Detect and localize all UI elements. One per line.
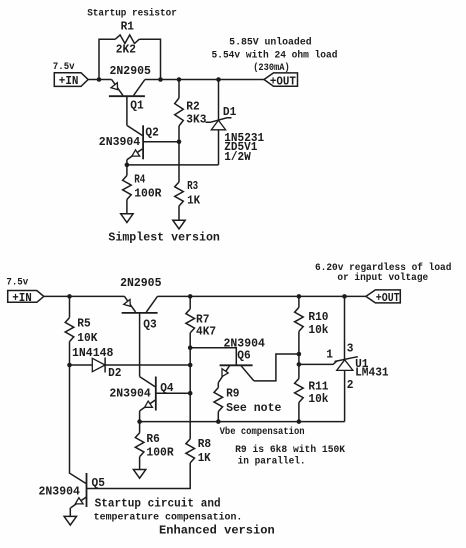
svg-text:2: 2 <box>347 378 354 392</box>
wire: R8 bottom to Q5 base <box>87 463 191 489</box>
diode D2 cathode bar <box>104 358 106 373</box>
wire: bottom compensation rail <box>140 421 345 423</box>
label Q5 <box>92 476 105 490</box>
svg-text:R9: R9 <box>226 387 239 401</box>
svg-text:R9 is 6k8 with 150K: R9 is 6k8 with 150K <box>235 444 345 455</box>
transistor Q6 (2N3904 NPN, rotated) <box>218 365 254 382</box>
label 1N4148 <box>72 346 113 360</box>
label 3K3 <box>186 113 206 127</box>
resistor R1 value 2K2 <box>116 43 136 57</box>
node: R11 bottom junction <box>297 419 302 424</box>
pin number 3 <box>347 342 354 356</box>
wire: R10 bottom / R11 top rail <box>298 331 300 378</box>
svg-text:D1: D1 <box>223 105 236 119</box>
label R3 <box>187 179 198 193</box>
svg-text:3: 3 <box>347 342 354 356</box>
svg-text:R6: R6 <box>146 432 159 446</box>
svg-text:See note: See note <box>226 401 281 415</box>
resistor R6 (100R) <box>135 433 144 457</box>
transistor Q1 (2N2905 PNP) <box>109 80 145 97</box>
label 2N3904 (Q2) <box>99 135 140 149</box>
wire: R3 bottom lead <box>178 206 180 220</box>
resistor R10 (10k) <box>295 307 304 331</box>
svg-text:10K: 10K <box>77 331 98 345</box>
wire: R4 bottom lead <box>126 200 128 214</box>
shunt regulator U1 (LM431) zener bar <box>335 357 358 362</box>
svg-text:Q3: Q3 <box>143 318 156 332</box>
annotation: R9 is 6k8 with 150K <box>235 444 345 455</box>
svg-text:Q1: Q1 <box>130 98 143 112</box>
label 10K <box>77 331 98 345</box>
svg-text:+OUT: +OUT <box>376 291 400 305</box>
wire: R2 bottom lead <box>178 126 180 142</box>
label R2 <box>186 100 199 114</box>
wire: U1 pin 1 reference lead <box>299 361 337 365</box>
wire: R5 bottom lead <box>69 342 71 365</box>
resistor R1 label <box>121 20 134 34</box>
label R8 <box>198 437 211 451</box>
label 10k (R11) <box>308 392 328 406</box>
transistor Q2 (2N3904 NPN) <box>127 125 143 159</box>
node: R5 / D2 / Q5 collector junction <box>67 363 72 368</box>
wire: Q3 base / Q4 collector vertical <box>139 313 141 377</box>
pin number 1 <box>326 348 333 362</box>
label ZD5V1 <box>224 140 257 154</box>
label LM431 <box>355 366 389 380</box>
wire: R7 bottom to R8 top rail <box>189 333 191 439</box>
label Q4 <box>160 381 173 395</box>
wire: Q2 base to R2/R3 node <box>143 141 179 143</box>
zener diode D1 (1N5231) triangle <box>211 120 225 130</box>
port +IN (top) <box>54 73 88 88</box>
wire: +IN to Q1 emitter <box>88 79 112 81</box>
resistor R7 (4K7) <box>186 309 195 333</box>
svg-text:Vbe compensation: Vbe compensation <box>220 426 305 437</box>
node: R10 top junction <box>297 294 302 299</box>
svg-text:2N2905: 2N2905 <box>110 64 151 78</box>
label 1K (R8) <box>198 451 212 465</box>
svg-text:5.85V unloaded: 5.85V unloaded <box>229 37 312 48</box>
svg-text:1/2W: 1/2W <box>224 150 251 164</box>
port +OUT (top) <box>264 73 298 89</box>
caption: Simplest version <box>108 230 219 244</box>
svg-text:2N3904: 2N3904 <box>99 135 140 149</box>
wire: Q5 emitter stub to ground <box>69 508 71 517</box>
shunt regulator U1 triangle <box>337 360 353 371</box>
wire: junction to D2 anode <box>70 364 93 366</box>
wire: R4 top lead <box>126 165 128 176</box>
resistor R8 (1K) <box>186 439 195 463</box>
svg-text:2N3904: 2N3904 <box>39 485 80 499</box>
label 100R (R6) <box>146 445 173 459</box>
annotation: temperature compensation. <box>94 512 243 523</box>
annotation: 7.5v input voltage (bottom) <box>6 276 28 287</box>
svg-text:in parallel.: in parallel. <box>238 456 306 467</box>
wire: R1 loop left leg <box>99 39 115 79</box>
svg-text:3K3: 3K3 <box>186 113 206 127</box>
transistor Q5 (2N3904 NPN) <box>71 473 87 508</box>
node: Q4 emitter / R6 junction <box>137 419 142 424</box>
wire: R5 top lead <box>69 296 71 317</box>
wire: R9 bottom lead <box>217 412 219 422</box>
port +OUT (bottom) <box>366 290 400 305</box>
label Q3 <box>143 318 156 332</box>
wire: Q6 base lead <box>190 348 236 365</box>
resistor R5 (10K) <box>65 318 74 342</box>
port +IN (bottom) <box>8 291 44 305</box>
wire: D2 cathode to divider node <box>105 364 190 366</box>
annotation: 6.20v regardless of load <box>315 262 452 273</box>
svg-text:R5: R5 <box>77 317 90 331</box>
annotation: in parallel. <box>238 456 306 467</box>
label 4K7 <box>196 325 216 339</box>
annotation: Startup resistor <box>87 8 177 19</box>
transistor Q3 (2N2905 PNP) <box>122 296 158 313</box>
wire: R2 top lead <box>178 80 180 99</box>
node: R9 bottom junction <box>216 419 221 424</box>
label 10k (R10) <box>308 323 328 337</box>
svg-text:7.5v: 7.5v <box>53 61 75 72</box>
wire: R3 top lead <box>178 142 180 182</box>
node: junction +IN / R1 / Q1 emitter <box>97 77 102 82</box>
svg-text:R3: R3 <box>187 179 198 193</box>
wire: U1 pin 2 anode lead <box>344 370 346 421</box>
svg-text:Q6: Q6 <box>237 349 250 363</box>
wire: Q1 base to Q2 collector <box>126 96 128 125</box>
svg-text:100R: 100R <box>134 187 161 201</box>
node: +IN / R5 / Q3 emitter junction <box>67 294 72 299</box>
svg-text:2N2905: 2N2905 <box>120 276 161 290</box>
ground (below R4) <box>121 214 133 223</box>
resistor R2 (3K3) <box>175 98 184 126</box>
svg-text:LM431: LM431 <box>355 366 389 380</box>
node: Q2 emitter / R4 / D1 anode junction <box>125 163 130 168</box>
node: R7 top junction <box>188 294 193 299</box>
resistor R11 (10k) <box>295 379 304 403</box>
label 2N2905 (Q1) <box>110 64 151 78</box>
svg-text:D2: D2 <box>108 366 121 380</box>
ground (below R6) <box>133 470 145 479</box>
ground (below R3) <box>173 220 185 229</box>
wire: Q1 collector rail to +OUT <box>145 79 264 81</box>
resistor R4 (100R) <box>123 176 132 200</box>
svg-text:R2: R2 <box>186 100 199 114</box>
node: Q4 base junction <box>188 391 193 396</box>
svg-text:2K2: 2K2 <box>116 43 136 57</box>
svg-text:2N3904: 2N3904 <box>109 387 150 401</box>
wire: R9 top lead <box>217 383 219 388</box>
label D2 <box>108 366 121 380</box>
wire: emitter node to D1 anode <box>127 164 219 166</box>
ground (below Q5) <box>64 516 76 525</box>
wire: Q4 emitter stub <box>139 411 141 422</box>
label R6 <box>146 432 159 446</box>
wire: Q2 emitter stub <box>126 160 128 165</box>
svg-text:(230mA): (230mA) <box>253 62 290 73</box>
label R9 <box>226 387 239 401</box>
node: D1 top junction <box>216 77 221 82</box>
svg-text:temperature compensation.: temperature compensation. <box>94 512 243 523</box>
svg-text:1K: 1K <box>198 451 212 465</box>
svg-text:5.54v with 24 ohm load: 5.54v with 24 ohm load <box>212 50 338 61</box>
label 1N5231 <box>224 131 264 145</box>
label 2N3904 (Q6) <box>224 337 265 351</box>
label Q6 <box>237 349 250 363</box>
svg-text:4K7: 4K7 <box>196 325 216 339</box>
svg-text:+IN: +IN <box>12 291 32 305</box>
wire: +IN to Q3 emitter <box>44 295 125 297</box>
svg-text:10k: 10k <box>308 323 328 337</box>
diode D2 (1N4148) triangle <box>92 358 105 371</box>
wire: Q5 collector lead from D2 node <box>70 365 87 484</box>
wire: Q4 base to rail <box>156 392 190 394</box>
wire: D1 anode lead <box>218 130 220 165</box>
pin number 2 <box>347 378 354 392</box>
node: R2 top junction <box>177 77 182 82</box>
node: R2 / R3 / Q2 base junction <box>177 139 182 144</box>
svg-text:1N4148: 1N4148 <box>72 346 113 360</box>
node: R7 bottom / Q6 base junction <box>188 345 193 350</box>
svg-text:Q2: Q2 <box>145 125 158 139</box>
label U1 <box>355 357 368 371</box>
annotation: 5.54v with 24 ohm load <box>212 50 338 61</box>
label D1 <box>223 105 236 119</box>
label Q2 <box>145 125 158 139</box>
annotation: Startup circuit and <box>95 497 221 511</box>
svg-text:Q5: Q5 <box>92 476 105 490</box>
wire: Q3 collector rail to +OUT <box>158 295 366 297</box>
node: U1 reference junction <box>297 362 302 367</box>
annotation: (230mA) <box>253 62 290 73</box>
wire: R10 top lead <box>298 296 300 307</box>
annotation: 5.85V unloaded <box>229 37 312 48</box>
annotation: 7.5v input voltage (top) <box>53 61 75 72</box>
resistor R1 (2K2) <box>115 35 139 44</box>
label 2N2905 (Q3) <box>120 276 161 290</box>
label R5 <box>77 317 90 331</box>
svg-text:10k: 10k <box>308 392 328 406</box>
node: R1 right junction <box>158 77 163 82</box>
wire: R6 top lead <box>139 422 141 433</box>
label 1/2W <box>224 150 251 164</box>
label R10 <box>308 310 328 324</box>
svg-text:1K: 1K <box>187 194 201 208</box>
wire: Q6 collector path to divider <box>254 354 299 381</box>
svg-text:1: 1 <box>326 348 333 362</box>
label 2N3904 (Q4) <box>109 387 150 401</box>
transistor Q4 (2N3904 NPN) <box>140 377 156 411</box>
svg-text:Startup resistor: Startup resistor <box>87 8 177 19</box>
caption: Enhanced version <box>159 523 275 537</box>
label See note <box>226 401 281 415</box>
svg-text:Startup circuit and: Startup circuit and <box>95 497 221 511</box>
resistor R3 (1K) <box>175 182 184 206</box>
label R11 <box>308 379 328 393</box>
label 1K <box>187 194 201 208</box>
wire: R6 bottom lead <box>139 457 141 470</box>
svg-text:R1: R1 <box>121 20 134 34</box>
svg-text:R8: R8 <box>198 437 211 451</box>
annotation: or input voltage <box>337 272 428 283</box>
svg-text:Enhanced version: Enhanced version <box>159 523 275 537</box>
resistor R9 (see note) <box>214 388 223 412</box>
wire: R11 bottom lead <box>298 403 300 422</box>
wire: R1 loop right leg <box>139 39 160 79</box>
label R7 <box>196 313 209 327</box>
wire: U1 pin 3 cathode lead <box>344 296 346 359</box>
wire: D1 cathode lead <box>218 80 220 120</box>
svg-text:100R: 100R <box>146 445 173 459</box>
wire: R7 top lead <box>189 296 191 309</box>
svg-text:7.5v: 7.5v <box>6 276 28 287</box>
node: D2 cathode junction <box>188 363 193 368</box>
node: U1 cathode top junction <box>342 294 347 299</box>
node: R10 / Q6 collector junction <box>297 352 302 357</box>
svg-text:Simplest version: Simplest version <box>108 230 219 244</box>
label 100R <box>134 187 161 201</box>
annotation: Vbe compensation <box>220 426 305 437</box>
label 2N3904 (Q5) <box>39 485 80 499</box>
svg-text:or input voltage: or input voltage <box>337 272 428 283</box>
svg-text:+OUT: +OUT <box>270 75 296 89</box>
svg-text:R4: R4 <box>134 173 145 187</box>
label R4 <box>134 173 145 187</box>
label Q1 <box>130 98 143 112</box>
zener diode D1 cathode bar <box>206 118 232 123</box>
svg-text:+IN: +IN <box>59 74 79 88</box>
